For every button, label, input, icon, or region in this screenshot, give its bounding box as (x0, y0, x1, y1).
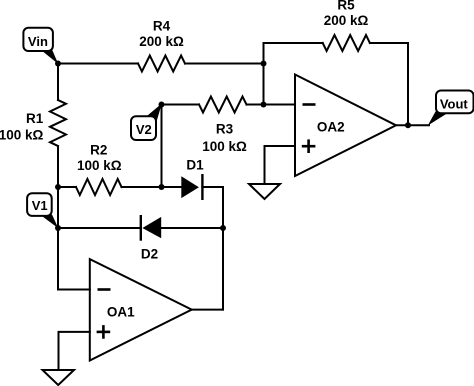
wire Vin node down to R1 (57, 64, 59, 101)
junction Vin node (55, 61, 61, 67)
wire R3 left lead from V2 node (162, 104, 200, 106)
svg-text:200 kΩ: 200 kΩ (139, 34, 184, 49)
svg-text:D2: D2 (141, 247, 158, 262)
junction OA2 output node (405, 122, 411, 128)
resistor R3 (199, 97, 247, 155)
svg-text:R2: R2 (90, 142, 107, 157)
wire R3 right lead (247, 104, 264, 106)
wire OA2 inverting input (264, 104, 296, 106)
svg-text:R1: R1 (26, 111, 44, 126)
wire right column vertical (D1/D2/OA1 output) (222, 187, 224, 310)
wire OA1 non-inverting input (59, 332, 90, 370)
svg-text:Vin: Vin (28, 34, 48, 49)
wire vertical summing node column (R4/R5/R3/OA2 inverting) (263, 43, 265, 105)
junction V2 node (159, 102, 165, 108)
resistor R4 (138, 19, 185, 72)
svg-text:Vout: Vout (440, 96, 469, 111)
wire R2 right lead to D1 anode (122, 186, 182, 188)
svg-text:R4: R4 (153, 19, 171, 34)
svg-text:OA1: OA1 (107, 305, 135, 320)
wire OA2 non-inverting input (265, 146, 296, 184)
wire left column V1 vertical (57, 187, 59, 290)
node V2 tag (131, 104, 162, 141)
wire R1 bottom lead (57, 146, 59, 187)
svg-text:100 kΩ: 100 kΩ (202, 139, 247, 154)
resistor R1 (0, 100, 66, 146)
svg-text:D1: D1 (186, 158, 204, 173)
wire OA2 output row (396, 124, 429, 126)
wire D2 anode row (161, 227, 223, 229)
wire D2 cathode row from V1 node (58, 227, 141, 229)
resistor R5 (323, 0, 370, 51)
junction R4/R5 column top (261, 61, 267, 67)
node Vin tag (23, 28, 58, 64)
op-amp OA1 (90, 259, 192, 360)
svg-text:V2: V2 (136, 122, 152, 137)
svg-text:OA2: OA2 (317, 119, 345, 134)
diode D1 (181, 158, 204, 199)
svg-text:R5: R5 (337, 0, 355, 12)
junction R1/R2 (55, 184, 61, 190)
wire R5 top left segment (264, 42, 323, 44)
wire R4 right lead to summing node column (185, 63, 264, 65)
node Vout tag (428, 91, 474, 126)
ground at OA1 non-inverting input (43, 370, 75, 385)
wire OA1 output to right column (192, 309, 223, 311)
svg-text:R3: R3 (216, 122, 234, 137)
junction R3/R5/OA2 inverting (261, 102, 267, 108)
junction V1 node (55, 225, 61, 231)
svg-text:100 kΩ: 100 kΩ (0, 128, 43, 143)
diode D2 (141, 216, 161, 261)
wire R5 top right segment (370, 42, 408, 44)
resistor R2 (76, 142, 122, 195)
wire OA1 inverting input (58, 289, 90, 291)
wire V2 node vertical (161, 105, 163, 188)
ground at OA2 non-inverting input (249, 184, 280, 199)
svg-text:V1: V1 (32, 198, 48, 213)
wire R2 left lead (58, 186, 76, 188)
wire Vin node to R4 left lead (58, 63, 138, 65)
junction V2 column / R2-D1 row (159, 184, 165, 190)
wire D1 cathode to right column (202, 186, 223, 188)
svg-text:200 kΩ: 200 kΩ (324, 13, 369, 28)
wire R5 right vertical to output (407, 43, 409, 125)
node V1 tag (27, 193, 58, 228)
svg-text:100 kΩ: 100 kΩ (77, 158, 122, 173)
op-amp OA2 (295, 75, 396, 177)
junction D2 / OA1 output column (220, 225, 226, 231)
